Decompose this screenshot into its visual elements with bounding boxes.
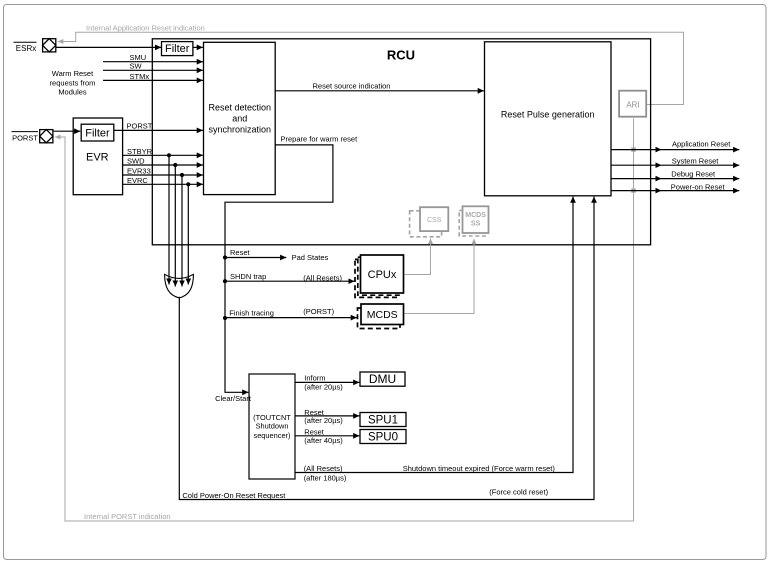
- svg-text:System Reset: System Reset: [672, 156, 720, 165]
- svg-text:Power-on Reset: Power-on Reset: [671, 182, 726, 191]
- svg-text:Modules: Modules: [58, 88, 87, 97]
- svg-text:Reset Pulse generation: Reset Pulse generation: [501, 110, 595, 120]
- svg-text:Reset: Reset: [230, 248, 251, 257]
- svg-text:CSS: CSS: [427, 217, 442, 224]
- svg-text:PORST: PORST: [127, 121, 153, 130]
- svg-text:synchronization: synchronization: [209, 125, 272, 135]
- svg-text:SPU0: SPU0: [368, 432, 398, 444]
- svg-text:Internal Application Reset in: Internal Application Reset indication: [86, 24, 205, 33]
- svg-text:SS: SS: [471, 221, 481, 228]
- svg-text:PORST: PORST: [12, 134, 38, 143]
- svg-text:and: and: [232, 114, 247, 124]
- svg-text:Shutdown: Shutdown: [256, 421, 289, 430]
- svg-text:MCDS: MCDS: [465, 212, 486, 219]
- svg-text:DMU: DMU: [369, 372, 396, 386]
- svg-text:sequencer): sequencer): [254, 431, 291, 440]
- svg-text:SW: SW: [130, 62, 143, 71]
- svg-text:Warm Reset: Warm Reset: [52, 69, 94, 78]
- svg-text:Filter: Filter: [85, 128, 110, 140]
- svg-text:Debug Reset: Debug Reset: [671, 170, 716, 179]
- svg-text:Shutdown timeout expired (For: Shutdown timeout expired (Force warm res…: [403, 464, 556, 473]
- svg-text:Reset detection: Reset detection: [209, 103, 272, 113]
- svg-text:MCDS: MCDS: [367, 309, 398, 321]
- svg-text:(after 40µs): (after 40µs): [304, 436, 343, 445]
- svg-text:ESRx: ESRx: [16, 44, 36, 53]
- svg-text:ARI: ARI: [626, 100, 639, 109]
- svg-text:SHDN trap: SHDN trap: [230, 272, 266, 281]
- svg-text:Reset source indication: Reset source indication: [313, 81, 391, 90]
- svg-text:(Force cold reset): (Force cold reset): [489, 487, 548, 496]
- svg-text:EVR33: EVR33: [127, 167, 151, 176]
- svg-text:(after 20µs): (after 20µs): [304, 382, 343, 391]
- svg-text:CPUx: CPUx: [368, 269, 397, 281]
- svg-text:Finish tracing: Finish tracing: [229, 308, 274, 317]
- svg-text:Clear/Start: Clear/Start: [215, 394, 252, 403]
- svg-text:Filter: Filter: [165, 43, 190, 55]
- svg-text:requests from: requests from: [50, 78, 96, 87]
- svg-text:EVR: EVR: [86, 151, 109, 163]
- svg-text:SMU: SMU: [130, 53, 147, 62]
- svg-text:RCU: RCU: [387, 48, 415, 63]
- svg-text:Prepare for warm reset: Prepare for warm reset: [281, 135, 359, 144]
- svg-text:(PORST): (PORST): [303, 307, 334, 316]
- svg-text:(All Resets): (All Resets): [303, 273, 342, 282]
- svg-text:SWD: SWD: [127, 157, 145, 166]
- svg-text:STBYR: STBYR: [127, 147, 153, 156]
- svg-text:(All Resets): (All Resets): [304, 464, 343, 473]
- svg-text:STMx: STMx: [130, 72, 150, 81]
- svg-text:Cold Power-On Reset Request: Cold Power-On Reset Request: [182, 491, 286, 500]
- svg-text:(after 20µs): (after 20µs): [304, 416, 343, 425]
- svg-text:(after 180µs): (after 180µs): [304, 473, 347, 482]
- svg-text:Application Reset: Application Reset: [672, 140, 731, 149]
- svg-text:Inform: Inform: [304, 374, 325, 383]
- svg-text:Pad States: Pad States: [292, 253, 329, 262]
- svg-text:Internal PORST indication: Internal PORST indication: [84, 512, 171, 521]
- svg-text:EVRC: EVRC: [127, 176, 148, 185]
- svg-text:SPU1: SPU1: [368, 415, 398, 427]
